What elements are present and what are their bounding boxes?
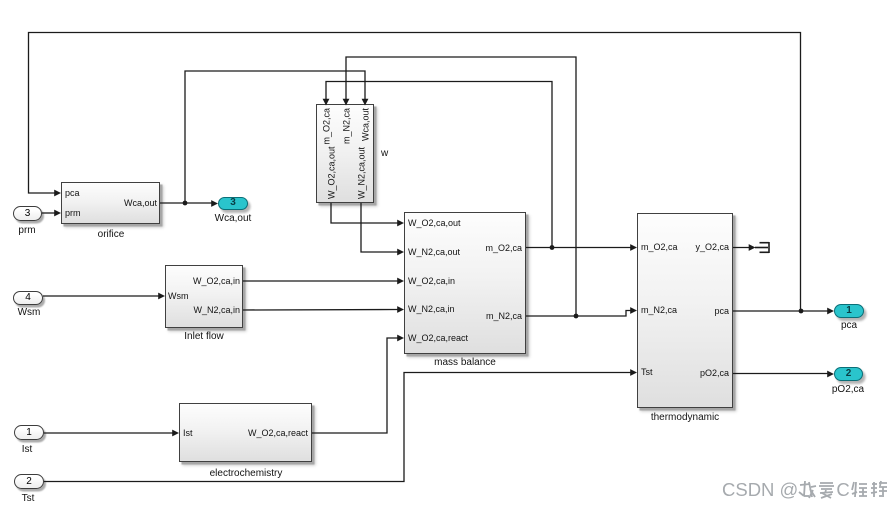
- svg-text:W_N2,ca,out: W_N2,ca,out: [357, 146, 367, 199]
- svg-text:m_O2,ca: m_O2,ca: [322, 108, 332, 145]
- svg-text:Wca,out: Wca,out: [361, 108, 371, 142]
- svg-text:W_O2,ca,out: W_O2,ca,out: [327, 146, 337, 199]
- svg-text:m_N2,ca: m_N2,ca: [342, 108, 352, 144]
